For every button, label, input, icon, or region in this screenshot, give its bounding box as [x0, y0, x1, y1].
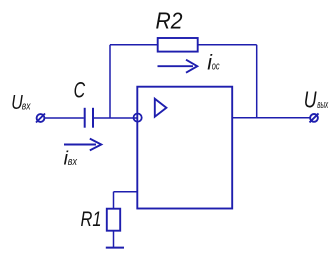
wire: output: [232, 117, 310, 119]
wire: top wire to R2: [110, 44, 158, 46]
wire: capacitor to op-amp input: [94, 117, 138, 119]
op-amp triangle: [155, 99, 167, 117]
wire: down to R1: [113, 192, 115, 209]
arrow ioc: [158, 60, 198, 73]
svg-text:Uвх: Uвх: [11, 91, 31, 114]
arrow ivx: [64, 139, 101, 151]
svg-text:Uвых: Uвых: [304, 86, 329, 112]
wire: below R1: [113, 231, 115, 248]
wire: feedback right vertical: [256, 45, 258, 118]
svg-text:R1: R1: [81, 208, 102, 231]
resistor R2: [158, 38, 198, 52]
wire: feedback tap vertical: [109, 45, 111, 118]
wire: R2 to right corner: [198, 44, 257, 46]
wire: input terminal to capacitor: [44, 117, 83, 119]
ground: [106, 247, 124, 249]
op-amp inverting input circle: [134, 114, 142, 122]
svg-text:iос: iос: [207, 52, 220, 75]
svg-text:iвх: iвх: [64, 147, 78, 169]
capacitor C plates: [85, 108, 93, 128]
op-amp U1 body: [137, 87, 232, 209]
resistor R1: [107, 209, 120, 231]
wire: lower op-amp input: [114, 191, 138, 193]
terminal Uvx (input): [36, 114, 45, 123]
svg-text:C: C: [74, 78, 86, 103]
terminal Uvyx (output): [310, 113, 319, 122]
svg-text:R2: R2: [156, 8, 183, 34]
